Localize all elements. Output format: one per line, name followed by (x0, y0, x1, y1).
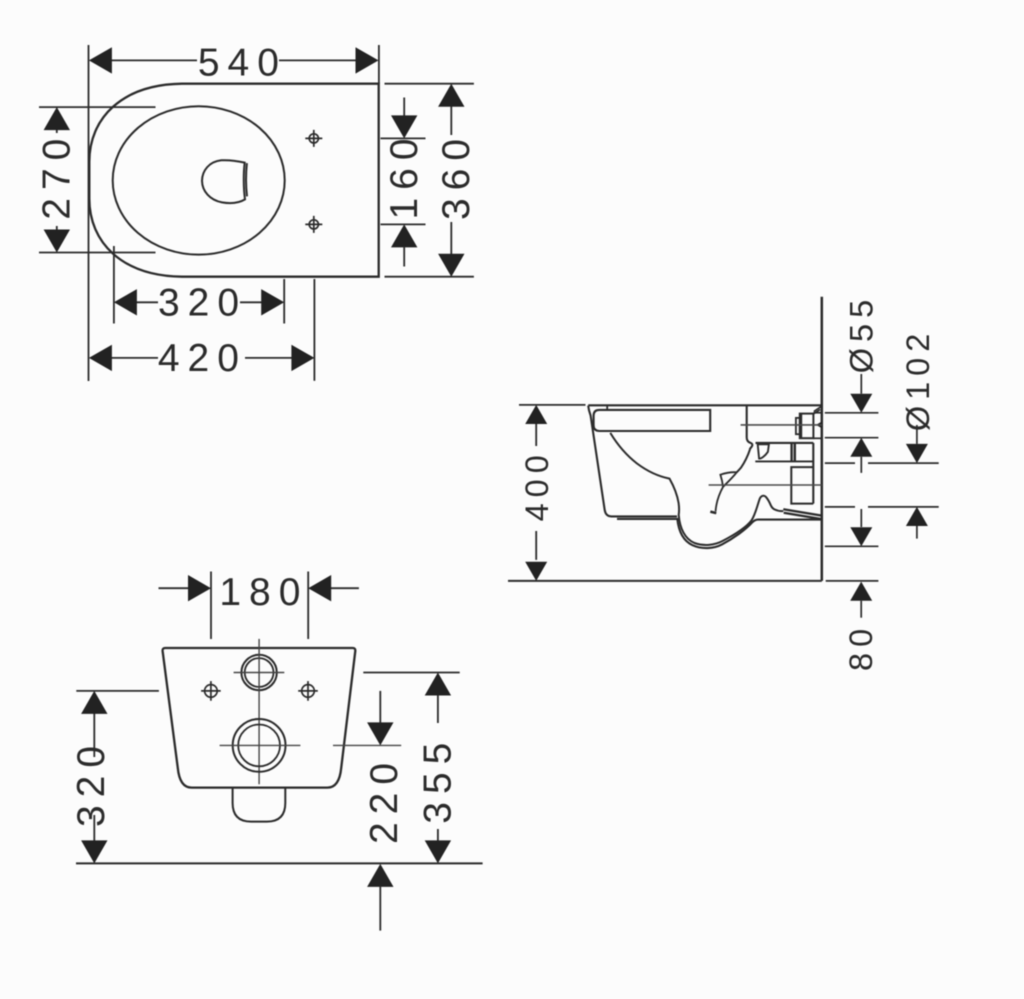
svg-text:360: 360 (435, 131, 478, 220)
svg-text:355: 355 (417, 735, 460, 824)
outlet pipe top slant (783, 509, 822, 515)
inner bowl rim oval (113, 106, 285, 254)
flush centerline (741, 424, 822, 426)
flush mouth (758, 444, 769, 458)
dim 102 lower shaft (916, 526, 918, 539)
arrow 55 bottom (850, 438, 872, 457)
bowl inner curve (610, 433, 783, 545)
dim 80 shaft (860, 601, 862, 618)
arrow 320 rear bottom (81, 840, 107, 863)
chain shaft below 55 (860, 457, 862, 527)
drain inner edge line (245, 163, 248, 196)
arrow 160 bottom (391, 224, 417, 247)
ext 102 bottom (825, 506, 939, 508)
ext 55 top (825, 412, 879, 414)
ext 102 top (825, 462, 939, 464)
arrow 320 left (114, 289, 137, 315)
rear body trapezoid (163, 648, 356, 788)
dimension 220 upper shaft (379, 691, 381, 724)
outlet circle inner (238, 725, 280, 767)
floor extension segment (826, 580, 879, 582)
svg-text:220: 220 (363, 755, 406, 844)
outer body outline (89, 84, 378, 277)
dimension 355 extension line (363, 672, 459, 674)
drain outline (202, 160, 245, 203)
dimension 270 extension lines (39, 107, 156, 252)
outlet socket rect (791, 467, 813, 504)
arrow 180 right (308, 575, 331, 601)
arrow 102 top (906, 444, 928, 463)
bowl back curve (737, 449, 750, 472)
bottom outer line into trap (617, 519, 822, 548)
connector chamfer (814, 406, 822, 414)
cistern front edge (747, 405, 753, 449)
mounting hole upper (305, 130, 322, 147)
arrow 270 top (44, 107, 70, 130)
arrow 220 bottom (367, 864, 393, 887)
svg-text:160: 160 (383, 130, 426, 219)
arrow 355 bottom (425, 840, 451, 863)
vertical centerline through circles (258, 639, 260, 784)
arrow 320 rear top (81, 691, 107, 714)
svg-text:80: 80 (843, 623, 879, 671)
outlet bump below (233, 788, 286, 822)
dimension 540 extension lines (89, 45, 379, 381)
wall seal triangle (816, 422, 822, 429)
arrow 540 right (356, 47, 379, 73)
chain arrow at bowl bottom (850, 527, 872, 546)
dimension 360 extension lines (385, 84, 474, 277)
arrow 540 left (89, 47, 112, 73)
dimension 320 rear line (93, 712, 95, 842)
svg-text:320: 320 (70, 738, 113, 827)
rear hole right (298, 681, 318, 701)
arrow 160 top (391, 115, 417, 138)
ext line bowl bottom (825, 545, 879, 547)
svg-text:270: 270 (35, 131, 78, 220)
flush circle h-centerline (234, 672, 285, 674)
svg-text:400: 400 (519, 449, 555, 521)
flush circle inner (245, 658, 274, 687)
connector bottom line to wall (813, 437, 821, 439)
dimension 320 line (137, 301, 262, 303)
floor line rear view (76, 862, 483, 864)
dimension 420 extension line right (313, 279, 315, 381)
arrow 420 left (89, 345, 112, 371)
connector top line to wall (813, 412, 821, 414)
svg-text:Ø55: Ø55 (843, 294, 879, 373)
svg-text:320: 320 (158, 281, 247, 324)
wall line (821, 297, 824, 581)
shelf line (755, 460, 813, 462)
flush connector flange (796, 418, 800, 434)
dim 102 shaft (916, 425, 918, 444)
top surface line (588, 404, 822, 406)
svg-text:Ø102: Ø102 (900, 328, 936, 432)
dimension 160 line upper (403, 98, 405, 117)
rear hole left (201, 681, 221, 701)
right vertical to socket (812, 443, 814, 504)
svg-text:180: 180 (219, 571, 308, 614)
arrow 180 left (188, 575, 211, 601)
water line in trap (710, 512, 716, 513)
arrow 102 bottom (906, 507, 928, 526)
arrow 360 top (438, 84, 464, 107)
dimension 180 shafts (159, 587, 359, 589)
ext 55 bottom (825, 437, 879, 439)
dimension 400 line (535, 424, 537, 560)
dimension 320 extension lines (114, 246, 284, 324)
dimension 270 line (56, 129, 58, 231)
arrow 80 at floor (850, 582, 872, 601)
arrow 400 top (525, 405, 547, 424)
dimension 160 extension lines (381, 138, 426, 224)
svg-text:420: 420 (158, 337, 247, 380)
arrow 270 bottom (44, 230, 70, 253)
arrow 400 bottom (525, 562, 547, 581)
arrow 360 bottom (438, 254, 464, 277)
seat profile rectangle (594, 410, 711, 431)
dimension 360 line (450, 106, 452, 255)
dimension 160 line lower (403, 246, 405, 266)
outlet centerline (709, 484, 822, 486)
arrow 420 right (291, 345, 314, 371)
jet flag (720, 472, 736, 487)
front edge and bottom (588, 406, 677, 517)
dimension 320 rear extension line (76, 690, 159, 692)
channel to waterline (716, 487, 723, 511)
arrow 220 top (367, 722, 393, 745)
outlet h-centerline (220, 744, 402, 746)
cistern underside (756, 442, 814, 444)
dimension 400 extension line (519, 404, 586, 406)
dimension 220 lower shaft (379, 886, 381, 931)
arrow 355 top (425, 673, 451, 696)
dark double bar (792, 444, 795, 462)
dimension 420 line (112, 357, 293, 359)
flush connector body (800, 414, 814, 439)
dimension 355 line (437, 695, 439, 843)
floor line side view (508, 580, 822, 582)
arrow 320 right (261, 289, 284, 315)
dimension 540 line (112, 59, 357, 61)
dimension 180 extension lines (211, 572, 308, 640)
outlet circle outer (233, 719, 286, 772)
arrow 55 top (850, 394, 872, 413)
outlet pipe bottom slant (784, 513, 822, 519)
mounting hole lower (305, 216, 322, 233)
flush circle outer (241, 655, 276, 690)
dim 55 shaft (860, 374, 862, 394)
connector thick edge (800, 414, 803, 439)
svg-text:540: 540 (198, 42, 287, 85)
seat tick (606, 405, 608, 410)
